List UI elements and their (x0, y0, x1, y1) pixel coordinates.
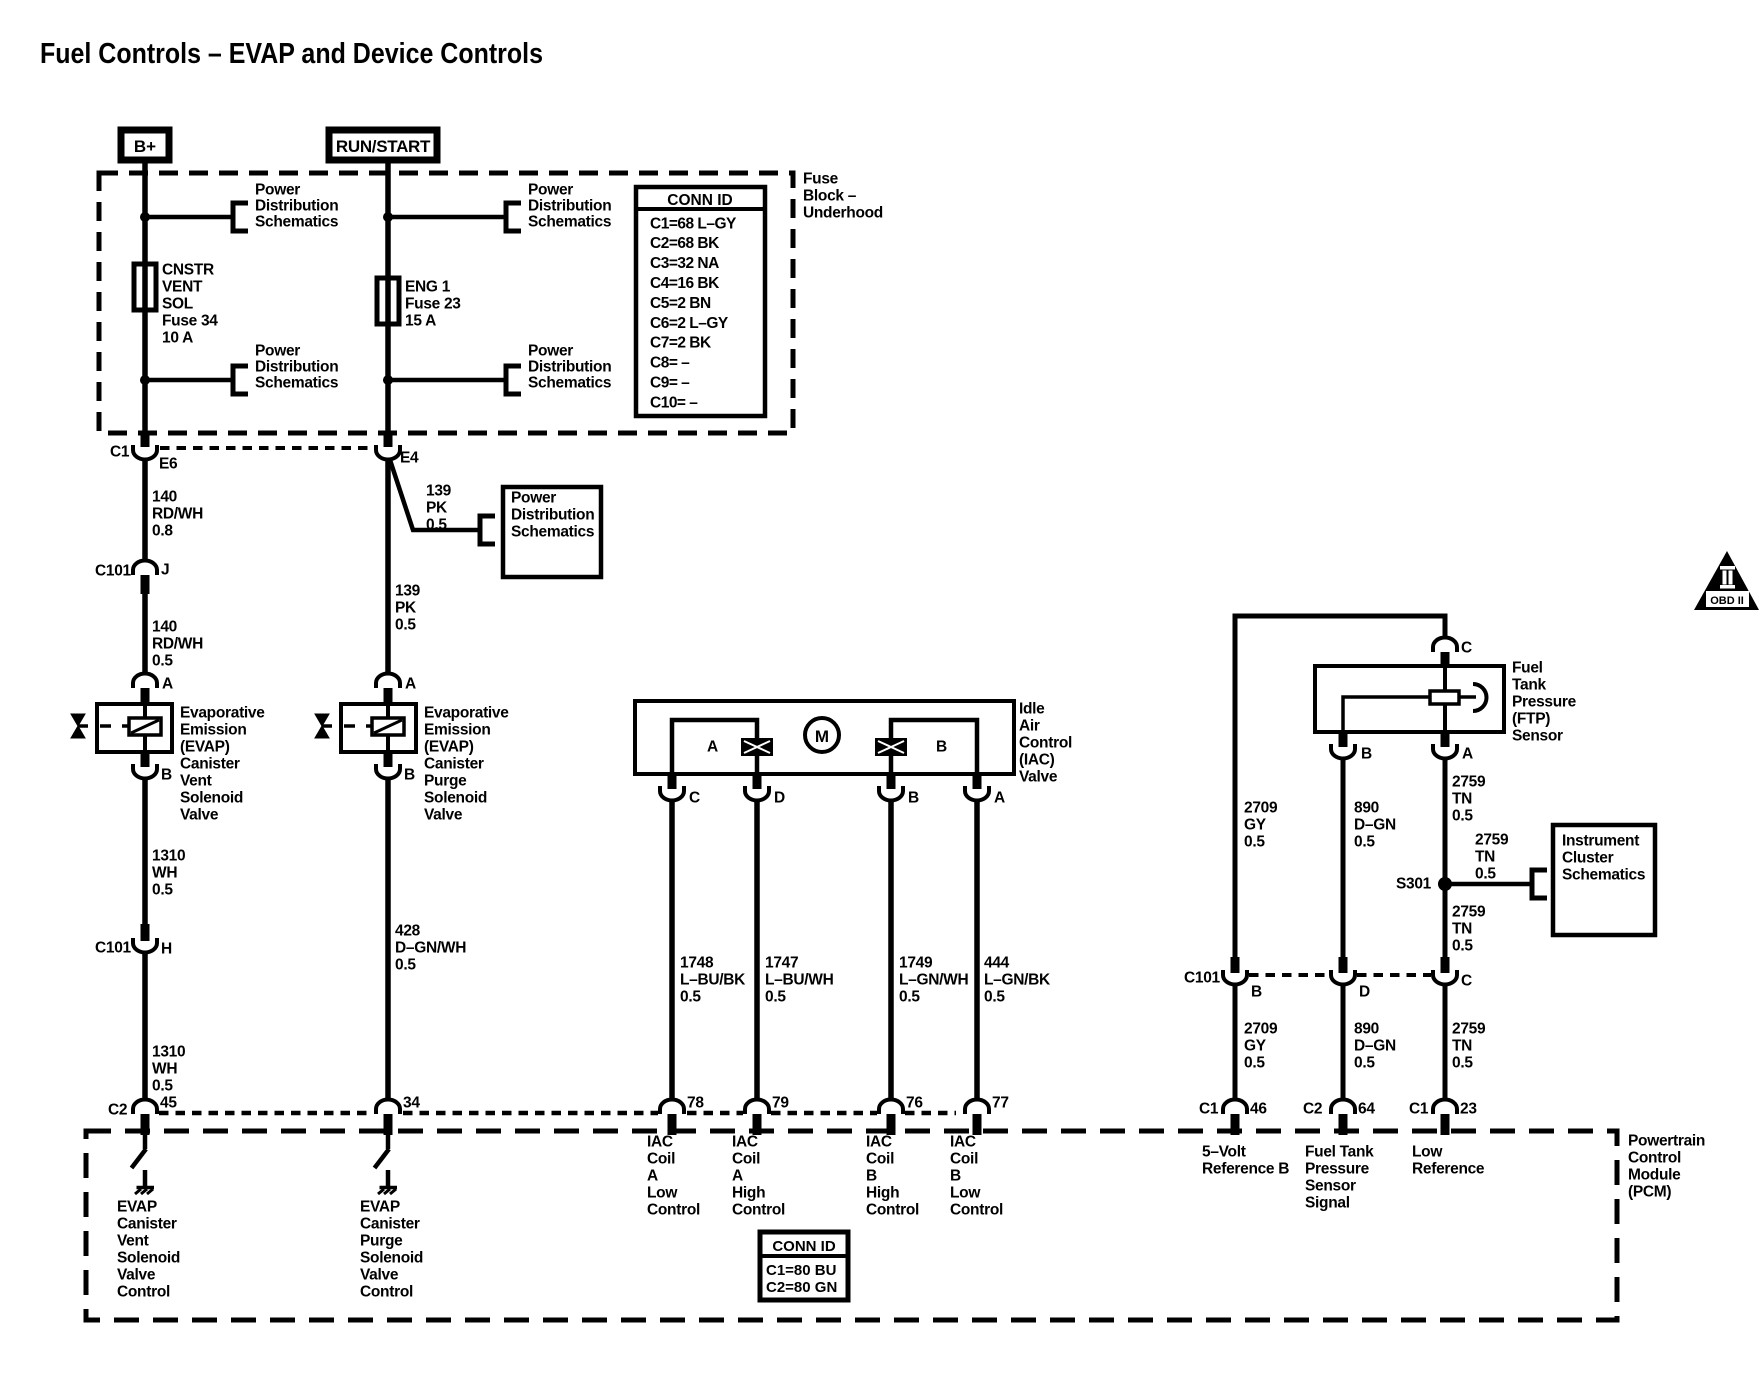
off-page bracket instrument cluster (1532, 870, 1547, 898)
svg-text:Control: Control (117, 1283, 170, 1300)
label pin 76 (906, 1094, 923, 1111)
connector dashed line PCM row (159, 1111, 372, 1116)
pin stub above C101 H (141, 924, 150, 941)
svg-text:34: 34 (403, 1094, 420, 1111)
PCM label (1628, 1132, 1705, 1200)
svg-text:Solenoid: Solenoid (180, 789, 243, 806)
junction on RUN/START feed (upper) (383, 212, 393, 222)
svg-text:Schematics: Schematics (511, 523, 594, 540)
svg-text:0.5: 0.5 (152, 881, 173, 898)
svg-text:C10= –: C10= – (650, 394, 698, 411)
svg-text:TN: TN (1452, 790, 1472, 807)
pin stub into vent solenoid (141, 688, 150, 706)
label E6 (159, 455, 178, 472)
svg-text:Reference B: Reference B (1202, 1160, 1289, 1177)
off-page bracket upper right (506, 203, 521, 231)
pin stub into purge solenoid (384, 688, 393, 706)
svg-text:C1=68 L–GY: C1=68 L–GY (650, 215, 737, 232)
svg-text:Canister: Canister (117, 1215, 177, 1232)
idle air control (IAC) valve box (635, 701, 1014, 774)
label C (FTP) (1461, 639, 1472, 656)
svg-text:S301: S301 (1396, 875, 1432, 892)
pin stub below purge solenoid (384, 752, 393, 767)
svg-text:C5=2 BN: C5=2 BN (650, 295, 711, 312)
vent valve symbol (bowtie) (71, 714, 85, 738)
fuel tank pressure (FTP) sensor box (1315, 666, 1504, 732)
connector C101 pin D (1331, 970, 1355, 985)
wire 1747 L-BU/WH 0.5 (754, 801, 760, 1100)
svg-text:(FTP): (FTP) (1512, 710, 1550, 727)
svg-text:C9= –: C9= – (650, 375, 690, 392)
connector pin 23 (PCM) (1433, 1100, 1457, 1115)
connector pin B (FTP) (1331, 744, 1355, 759)
connector pin B (vent solenoid) (133, 764, 157, 779)
svg-text:Low: Low (950, 1184, 981, 1201)
label C1 (pin 46) (1199, 1100, 1219, 1117)
pin stub below FTP A (1441, 732, 1450, 747)
connector pin 64 (PCM) (1331, 1100, 1355, 1115)
svg-text:Coil: Coil (732, 1150, 760, 1167)
svg-text:10 A: 10 A (162, 329, 193, 346)
label S301 (1396, 875, 1432, 892)
svg-text:B: B (404, 766, 415, 783)
off-page bracket upper left (233, 203, 248, 231)
label A (FTP) (1462, 745, 1473, 762)
FTP wiper wire (1343, 697, 1430, 732)
svg-text:Schematics: Schematics (1562, 866, 1645, 883)
pin stub below 77 (973, 1114, 982, 1135)
label coil A (707, 738, 718, 755)
fuse block underhood label (803, 170, 883, 221)
svg-text:RD/WH: RD/WH (152, 635, 203, 652)
svg-text:2709: 2709 (1244, 1020, 1278, 1037)
svg-text:78: 78 (687, 1094, 704, 1111)
svg-text:Distribution: Distribution (255, 197, 338, 214)
label C1 (pin 23) (1409, 1100, 1429, 1117)
svg-text:Idle: Idle (1019, 700, 1045, 717)
wire 2759 TN 0.5 (upper) (1443, 758, 1448, 958)
svg-text:0.5: 0.5 (984, 988, 1005, 1005)
wire 2759 TN 0.5 to instrument cluster (1445, 882, 1532, 887)
label pin 64 (1358, 1100, 1375, 1117)
instrument cluster schematics label (1562, 832, 1645, 883)
wire label 2759 TN 0.5 (splice branch) (1475, 831, 1509, 882)
svg-text:Evaporative: Evaporative (180, 704, 265, 721)
connector pin B (IAC) (879, 786, 903, 801)
svg-text:0.5: 0.5 (680, 988, 701, 1005)
svg-text:Control: Control (732, 1201, 785, 1218)
svg-text:C1: C1 (1199, 1100, 1219, 1117)
wire 1310 WH 0.5 (lower) (142, 952, 148, 1100)
label C2 (pin 45) (108, 1101, 127, 1118)
label pin 77 (992, 1094, 1009, 1111)
label B (C101 row) (1251, 983, 1262, 1000)
powertrain control module (PCM) dashed border (86, 1131, 1617, 1320)
svg-text:Instrument: Instrument (1562, 832, 1639, 849)
label C2 (pin 64) (1303, 1100, 1322, 1117)
svg-text:Distribution: Distribution (511, 506, 594, 523)
svg-text:Canister: Canister (360, 1215, 420, 1232)
svg-text:D–GN/WH: D–GN/WH (395, 939, 466, 956)
svg-text:Control: Control (1628, 1149, 1681, 1166)
svg-text:A: A (994, 789, 1005, 806)
svg-text:IAC: IAC (950, 1133, 976, 1150)
svg-text:0.5: 0.5 (899, 988, 920, 1005)
svg-text:Reference: Reference (1412, 1160, 1485, 1177)
svg-text:VENT: VENT (162, 278, 203, 295)
svg-text:C101: C101 (1184, 969, 1221, 986)
wire label 2709 GY 0.5 lower (1244, 1020, 1278, 1071)
svg-text:Underhood: Underhood (803, 204, 883, 221)
junction on B+ feed (lower) (140, 375, 150, 385)
pin stub above C101 D (1339, 957, 1348, 973)
FTP sensing element (1430, 691, 1459, 704)
svg-text:Control: Control (866, 1201, 919, 1218)
label E4 (400, 449, 419, 466)
svg-text:Evaporative: Evaporative (424, 704, 509, 721)
pin stub below 34 (384, 1114, 393, 1135)
label pin 23 (1460, 1100, 1477, 1117)
svg-text:1747: 1747 (765, 954, 798, 971)
svg-text:0.5: 0.5 (1452, 807, 1473, 824)
CONN ID table (PCM) (760, 1232, 848, 1300)
wire label 2759 TN 0.5 lower (1452, 1020, 1486, 1071)
svg-text:139: 139 (395, 582, 421, 599)
svg-text:C1: C1 (1409, 1100, 1429, 1117)
svg-text:A: A (1462, 745, 1473, 762)
wire RUN/START feed vertical (385, 160, 391, 447)
svg-text:Signal: Signal (1305, 1194, 1350, 1211)
IAC coil A symbol (741, 738, 773, 756)
label B (FTP) (1361, 745, 1372, 762)
svg-text:Coil: Coil (647, 1150, 675, 1167)
connector pin 46 (PCM) (1223, 1100, 1247, 1115)
svg-text:23: 23 (1460, 1100, 1477, 1117)
OBD II symbol (1694, 551, 1759, 610)
svg-text:0.5: 0.5 (152, 652, 173, 669)
connector pin E4 (376, 445, 400, 460)
svg-text:45: 45 (160, 1094, 177, 1111)
wire label 444 L-GN/BK 0.5 (984, 954, 1051, 1005)
fuse 34 label (162, 261, 218, 346)
connector pin C (FTP sensor) (1433, 638, 1457, 653)
svg-text:Power: Power (528, 181, 573, 198)
svg-text:Vent: Vent (180, 772, 212, 789)
instrument cluster schematics box (1553, 825, 1655, 935)
svg-text:CONN ID: CONN ID (667, 192, 732, 209)
svg-text:GY: GY (1244, 1037, 1267, 1054)
purge solenoid label (424, 704, 509, 823)
svg-text:High: High (732, 1184, 765, 1201)
svg-text:140: 140 (152, 488, 177, 505)
wire 2759 TN 0.5 (lower) (1443, 984, 1448, 1100)
svg-text:C101: C101 (95, 939, 132, 956)
label A (IAC) (994, 789, 1005, 806)
wire 1748 L-BU/BK 0.5 (669, 801, 675, 1100)
purge valve linkage (322, 724, 332, 728)
IAC coil B symbol (875, 738, 907, 756)
svg-text:0.5: 0.5 (426, 516, 447, 533)
svg-text:(EVAP): (EVAP) (180, 738, 230, 755)
svg-text:C7=2 BK: C7=2 BK (650, 335, 712, 352)
label pin 45 (160, 1094, 177, 1111)
label B (IAC) (908, 789, 919, 806)
svg-text:B: B (866, 1167, 877, 1184)
svg-text:Distribution: Distribution (255, 358, 338, 375)
pin stub below FTP B (1339, 732, 1348, 747)
svg-text:(EVAP): (EVAP) (424, 738, 474, 755)
svg-text:Solenoid: Solenoid (360, 1249, 423, 1266)
EVAP canister purge solenoid valve box (341, 704, 416, 752)
svg-text:CONN ID: CONN ID (772, 1238, 836, 1255)
off-page bracket lower left (233, 366, 248, 394)
svg-text:B+: B+ (134, 137, 156, 156)
svg-text:Control: Control (647, 1201, 700, 1218)
svg-text:TN: TN (1452, 920, 1472, 937)
pin stub below 64 (1339, 1114, 1348, 1135)
svg-text:B: B (908, 789, 919, 806)
svg-text:Purge: Purge (424, 772, 467, 789)
5-volt reference B label (1202, 1143, 1289, 1177)
connector pin 79 (PCM) (745, 1100, 769, 1115)
connector pin D (IAC) (745, 786, 769, 801)
connector pin A (vent solenoid) (133, 674, 157, 689)
svg-text:D–GN: D–GN (1354, 1037, 1396, 1054)
wire 1749 L-GN/WH 0.5 (888, 801, 894, 1100)
svg-text:0.5: 0.5 (1452, 1054, 1473, 1071)
ground symbol (x=145) (137, 1186, 155, 1190)
label C (C101 row) (1461, 972, 1472, 989)
vent solenoid label (180, 704, 265, 823)
wire label 1310 WH 0.5 upper (152, 847, 185, 898)
label B (purge solenoid) (404, 766, 415, 783)
svg-text:PK: PK (395, 599, 417, 616)
svg-text:2759: 2759 (1452, 1020, 1486, 1037)
svg-text:C1: C1 (110, 443, 130, 460)
svg-text:Fuse 23: Fuse 23 (405, 295, 461, 312)
power distribution schematics label lower right (528, 342, 611, 391)
svg-text:0.5: 0.5 (152, 1077, 173, 1094)
vent valve linkage (78, 724, 88, 728)
svg-text:RD/WH: RD/WH (152, 505, 203, 522)
fuse block underhood dashed border (99, 173, 793, 433)
svg-text:Low: Low (647, 1184, 678, 1201)
svg-text:L–GN/WH: L–GN/WH (899, 971, 968, 988)
svg-text:Purge: Purge (360, 1232, 403, 1249)
svg-text:C1=80 BU: C1=80 BU (766, 1262, 836, 1279)
EVAP purge solenoid control label (360, 1198, 423, 1300)
svg-text:0.5: 0.5 (1354, 1054, 1375, 1071)
svg-text:1310: 1310 (152, 1043, 185, 1060)
svg-text:C2=68 BK: C2=68 BK (650, 235, 720, 252)
pin stub IAC A (973, 774, 982, 789)
connector dashed line C101 row (1249, 973, 1329, 977)
IAC coil A internal wire (672, 720, 757, 774)
driver switch (pin at x=388) (386, 1132, 391, 1149)
off-page bracket lower right (506, 366, 521, 394)
label pin 79 (772, 1094, 789, 1111)
svg-text:(PCM): (PCM) (1628, 1183, 1671, 1200)
svg-text:EVAP: EVAP (360, 1198, 400, 1215)
pin stub below vent solenoid (141, 752, 150, 767)
svg-text:Pressure: Pressure (1305, 1160, 1370, 1177)
pin stub below 45 (141, 1114, 150, 1135)
IAC valve label (1019, 700, 1072, 785)
svg-text:C2: C2 (1303, 1100, 1322, 1117)
svg-text:Control: Control (360, 1283, 413, 1300)
svg-text:WH: WH (152, 1060, 177, 1077)
svg-text:0.8: 0.8 (152, 522, 173, 539)
pin stub IAC D (753, 774, 762, 789)
svg-text:Distribution: Distribution (528, 358, 611, 375)
svg-text:Schematics: Schematics (528, 213, 611, 230)
pin stub above C101 C (1441, 957, 1450, 973)
svg-text:428: 428 (395, 922, 421, 939)
svg-text:Module: Module (1628, 1166, 1681, 1183)
power feed B+ (121, 130, 169, 160)
pin stub below 23 (1441, 1114, 1450, 1135)
wire 140 RD/WH 0.5 (142, 594, 148, 675)
svg-text:Valve: Valve (117, 1266, 156, 1283)
svg-text:Valve: Valve (1019, 768, 1058, 785)
svg-text:L–GN/BK: L–GN/BK (984, 971, 1051, 988)
svg-text:Distribution: Distribution (528, 197, 611, 214)
svg-text:Emission: Emission (180, 721, 247, 738)
svg-text:Solenoid: Solenoid (424, 789, 487, 806)
wire label 1749 L-GN/WH 0.5 (899, 954, 968, 1005)
svg-text:TN: TN (1452, 1037, 1472, 1054)
svg-text:A: A (707, 738, 718, 755)
svg-text:Fuel Controls – EVAP and Devic: Fuel Controls – EVAP and Device Controls (40, 38, 543, 70)
svg-text:EVAP: EVAP (117, 1198, 157, 1215)
svg-text:0.5: 0.5 (1244, 833, 1265, 850)
pin stub above C101 B (1231, 957, 1240, 973)
svg-text:C2=80 GN: C2=80 GN (766, 1279, 837, 1296)
wire 5V reference to FTP sensor (1235, 616, 1445, 958)
svg-text:0.5: 0.5 (1244, 1054, 1265, 1071)
svg-text:0.5: 0.5 (395, 616, 416, 633)
connector pin 78 (PCM) (660, 1100, 684, 1115)
svg-text:2709: 2709 (1244, 799, 1278, 816)
EVAP vent solenoid control label (117, 1198, 180, 1300)
pin stub into FTP sensor (1441, 652, 1450, 667)
svg-text:D: D (1359, 983, 1370, 1000)
driver switch (pin at x=145) (143, 1132, 148, 1149)
svg-text:1310: 1310 (152, 847, 185, 864)
svg-text:WH: WH (152, 864, 177, 881)
svg-text:L–BU/WH: L–BU/WH (765, 971, 834, 988)
label D (IAC) (774, 789, 785, 806)
svg-text:Pressure: Pressure (1512, 693, 1577, 710)
svg-text:E6: E6 (159, 455, 178, 472)
svg-text:GY: GY (1244, 816, 1267, 833)
label A (vent solenoid) (162, 675, 173, 692)
wire label 2709 GY 0.5 upper (1244, 799, 1278, 850)
connector pin 77 (PCM) (965, 1100, 989, 1115)
svg-text:Sensor: Sensor (1305, 1177, 1356, 1194)
FTP pressure port (1459, 695, 1476, 699)
wire 140 RD/WH 0.8 (142, 459, 148, 562)
svg-text:C4=16 BK: C4=16 BK (650, 275, 720, 292)
svg-text:Power: Power (511, 489, 556, 506)
svg-text:Fuse: Fuse (803, 170, 839, 187)
svg-text:IAC: IAC (866, 1133, 892, 1150)
svg-text:139: 139 (426, 482, 452, 499)
vent solenoid coil (129, 718, 161, 735)
svg-text:J: J (161, 561, 169, 578)
pin stub below 46 (1231, 1114, 1240, 1135)
power distribution schematics label upper left (255, 181, 338, 230)
power distribution schematics label upper right (528, 181, 611, 230)
svg-text:77: 77 (992, 1094, 1009, 1111)
svg-text:C3=32 NA: C3=32 NA (650, 255, 719, 272)
svg-text:1748: 1748 (680, 954, 714, 971)
wire to power distribution reference (upper right) (388, 215, 506, 220)
svg-text:A: A (405, 675, 416, 692)
connector pin A (IAC) (965, 786, 989, 801)
svg-text:Tank: Tank (1512, 676, 1547, 693)
IAC motor M (805, 718, 839, 752)
svg-text:C6=2 L–GY: C6=2 L–GY (650, 315, 729, 332)
splice S301 (1438, 877, 1452, 891)
ground symbol (x=388) (380, 1186, 398, 1190)
power feed RUN/START (329, 130, 437, 160)
svg-text:Schematics: Schematics (255, 374, 338, 391)
svg-text:(IAC): (IAC) (1019, 751, 1055, 768)
svg-text:Valve: Valve (424, 806, 463, 823)
CONN ID table (fuse block) (636, 187, 765, 416)
pin stub IAC C (668, 774, 677, 789)
svg-text:RUN/START: RUN/START (336, 137, 431, 156)
connector pin 45 (PCM) (133, 1100, 157, 1115)
svg-text:890: 890 (1354, 1020, 1379, 1037)
svg-text:Low: Low (1412, 1143, 1443, 1160)
wire label 1310 WH 0.5 lower (152, 1043, 185, 1094)
wire 428 D-GN/WH 0.5 (385, 778, 391, 1100)
svg-text:Cluster: Cluster (1562, 849, 1614, 866)
wire label 140 RD/WH 0.5 (152, 618, 203, 669)
label B (vent solenoid) (161, 766, 172, 783)
connector C1 pin E6 (133, 445, 157, 460)
svg-text:D: D (774, 789, 785, 806)
FTP sensor signal label (1305, 1143, 1374, 1211)
svg-text:15 A: 15 A (405, 312, 436, 329)
wire label 1748 L-BU/BK 0.5 (680, 954, 746, 1005)
svg-text:ENG 1: ENG 1 (405, 278, 451, 295)
wire 890 D-GN 0.5 (upper) (1341, 758, 1346, 958)
svg-text:2759: 2759 (1475, 831, 1509, 848)
label D (C101 row) (1359, 983, 1370, 1000)
svg-text:A: A (732, 1167, 743, 1184)
connector pin 76 (PCM) (879, 1100, 903, 1115)
purge solenoid coil (372, 718, 404, 735)
wire label 890 D-GN 0.5 upper (1354, 799, 1396, 850)
label H (161, 940, 172, 957)
label C (IAC) (689, 789, 700, 806)
connector dashed line C1-E4 (160, 446, 374, 450)
pin stub above C1 E6 (141, 431, 150, 447)
fuse CNSTR VENT SOL Fuse 34 10A (134, 264, 156, 310)
svg-text:M: M (815, 727, 829, 746)
connector C101 pin C (1433, 970, 1457, 985)
pin stub below 78 (668, 1114, 677, 1135)
fuse 23 label (405, 278, 461, 329)
svg-text:IAC: IAC (732, 1133, 758, 1150)
svg-text:Canister: Canister (424, 755, 484, 772)
svg-text:Power: Power (255, 181, 300, 198)
low reference label (1412, 1143, 1485, 1177)
svg-text:C: C (1461, 972, 1472, 989)
